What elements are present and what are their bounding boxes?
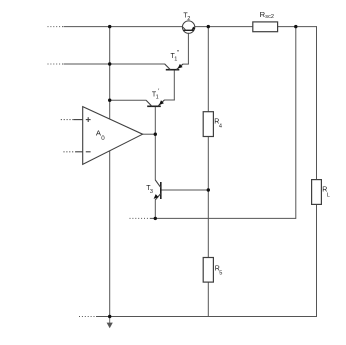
op-amp U A0 bbox=[61, 107, 143, 165]
wire inner rail from Rsc2 node down bbox=[295, 27, 297, 219]
node dot opamp output B bbox=[154, 133, 157, 136]
svg-text:2: 2 bbox=[187, 16, 190, 22]
node dot R4 rail top bbox=[207, 25, 210, 28]
wire bottom return dashed stub bbox=[79, 316, 96, 318]
wire right rail upper bbox=[316, 26, 318, 180]
wire output sense node to inner rail bbox=[151, 217, 296, 219]
svg-text:″: ″ bbox=[177, 51, 180, 57]
wire T3 emitter drop bbox=[154, 200, 156, 218]
resistor R4 bbox=[203, 112, 213, 137]
wire T1pp base to T1p emitter bbox=[173, 70, 175, 101]
node dot bottom rail ground bbox=[108, 315, 111, 318]
wire T1p collector bbox=[110, 99, 147, 101]
svg-text:0: 0 bbox=[101, 135, 105, 142]
node dot T1p collector bbox=[108, 99, 111, 102]
node dot second rail bbox=[108, 62, 111, 65]
wire T2 base drop bbox=[187, 33, 189, 64]
resistor R5 bbox=[203, 258, 213, 283]
wire opamp output to node B bbox=[142, 133, 155, 135]
transistor T1p bbox=[146, 100, 164, 106]
resistor RL load bbox=[312, 180, 322, 205]
svg-text:3: 3 bbox=[150, 189, 153, 195]
transistor T1pp bbox=[165, 64, 183, 70]
resistor Rsc2 bbox=[253, 22, 278, 32]
wire top supply rail dashed stub bbox=[48, 26, 64, 28]
wire R4 rail upper bbox=[207, 27, 209, 112]
svg-text:sc2: sc2 bbox=[265, 14, 274, 20]
node dot T3 emitter sense bbox=[154, 217, 157, 220]
wire R4 rail middle bbox=[207, 137, 209, 258]
svg-text:5: 5 bbox=[219, 271, 222, 277]
svg-text:L: L bbox=[327, 192, 330, 198]
wire left vertical rail bbox=[109, 27, 111, 317]
wire bottom return bbox=[96, 316, 317, 318]
wire T3 base to R4 rail bbox=[161, 189, 209, 191]
svg-text:1: 1 bbox=[156, 95, 159, 101]
node dot Rsc2 output bbox=[294, 25, 297, 28]
wire T1p emitter jog bbox=[164, 99, 175, 101]
svg-text:1: 1 bbox=[174, 56, 177, 62]
wire T1pp emitter jog bbox=[183, 63, 189, 65]
transistor T3 bbox=[155, 180, 161, 201]
wire right rail lower bbox=[316, 204, 318, 317]
node dot top-left rail bbox=[108, 25, 111, 28]
wire top supply rail bbox=[64, 26, 317, 28]
wire output sense dashed stub bbox=[130, 217, 151, 219]
ground arrow bbox=[107, 317, 113, 329]
wire second input rail to T1pp bbox=[64, 63, 165, 65]
node dot T3 base bbox=[207, 188, 210, 191]
wire R5 rail lower bbox=[207, 282, 209, 317]
transistor T2 current source bbox=[182, 21, 195, 33]
svg-text:′: ′ bbox=[158, 89, 160, 95]
wire second input rail dashed stub bbox=[48, 63, 64, 65]
svg-text:4: 4 bbox=[219, 124, 222, 130]
wire T1p base down to T3 collector bbox=[154, 106, 156, 180]
